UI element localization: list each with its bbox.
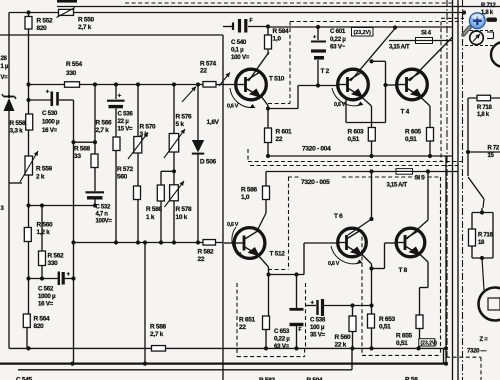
svg-text:R 718: R 718 — [477, 105, 492, 111]
svg-text:330: 330 — [48, 260, 59, 267]
svg-text:R 584: R 584 — [273, 28, 290, 35]
svg-text:560: 560 — [117, 174, 128, 181]
svg-text:820: 820 — [37, 25, 48, 32]
svg-text:15 V=: 15 V= — [118, 126, 134, 133]
svg-text:R 560: R 560 — [37, 222, 54, 229]
svg-text:22 k: 22 k — [335, 342, 347, 349]
svg-text:C 530: C 530 — [42, 110, 58, 117]
svg-text:C 545: C 545 — [16, 377, 33, 380]
svg-text:1,0: 1,0 — [241, 194, 250, 201]
svg-text:33: 33 — [74, 153, 81, 160]
svg-text:R 564: R 564 — [34, 316, 51, 323]
svg-text:R 552: R 552 — [37, 18, 54, 25]
svg-text:3,15 A/T: 3,15 A/T — [389, 45, 410, 51]
svg-text:R 603: R 603 — [348, 129, 365, 136]
svg-text:+: + — [46, 89, 50, 96]
svg-text:C 562: C 562 — [38, 286, 54, 293]
svg-text:22 µ: 22 µ — [118, 118, 130, 125]
svg-text:5 k: 5 k — [176, 121, 185, 128]
svg-text:R 550: R 550 — [78, 17, 95, 24]
svg-text:16 V=: 16 V= — [42, 127, 58, 134]
svg-text:(23,2V): (23,2V) — [421, 341, 438, 347]
svg-text:R 712: R 712 — [481, 3, 496, 9]
svg-text:C 540: C 540 — [231, 39, 247, 46]
svg-text:7320 - 004: 7320 - 004 — [302, 146, 331, 153]
svg-text:R 586: R 586 — [241, 187, 258, 194]
svg-text:C 532: C 532 — [96, 205, 111, 211]
svg-text:0,51: 0,51 — [396, 340, 408, 347]
svg-text:D 506: D 506 — [200, 159, 217, 166]
svg-text:R 588: R 588 — [150, 324, 167, 331]
svg-text:R 655: R 655 — [396, 333, 413, 340]
svg-text:2,7 k: 2,7 k — [150, 331, 164, 338]
svg-text:R 568: R 568 — [74, 146, 91, 153]
svg-text:1,8 k: 1,8 k — [477, 112, 490, 118]
svg-text:(23,2V): (23,2V) — [354, 30, 372, 36]
svg-text:T 510: T 510 — [269, 76, 285, 83]
svg-text:1,6V: 1,6V — [207, 119, 220, 126]
svg-text:R 651: R 651 — [239, 317, 256, 324]
svg-text:V=: V= — [1, 75, 9, 81]
svg-text:R 572: R 572 — [117, 166, 134, 173]
svg-text:3,15 A/T: 3,15 A/T — [387, 182, 408, 188]
svg-text:F: F — [250, 18, 253, 24]
svg-text:0,6 V: 0,6 V — [334, 102, 346, 108]
svg-text:+: + — [313, 35, 316, 41]
svg-text:0,22 µ: 0,22 µ — [330, 36, 346, 43]
svg-text:T 2: T 2 — [321, 68, 330, 75]
svg-text:0,6 V: 0,6 V — [328, 261, 340, 267]
svg-text:1000 µ: 1000 µ — [42, 119, 60, 126]
svg-text:0,51: 0,51 — [348, 136, 360, 143]
svg-text:10 k: 10 k — [176, 214, 188, 221]
svg-text:Si 4: Si 4 — [421, 30, 432, 37]
svg-text:R 601: R 601 — [276, 129, 293, 136]
svg-text:100 µ: 100 µ — [310, 324, 325, 331]
svg-text:2,7 k: 2,7 k — [78, 24, 92, 31]
svg-text:+: + — [118, 93, 122, 100]
svg-text:3 k: 3 k — [140, 131, 149, 138]
svg-text:R 580: R 580 — [146, 206, 163, 213]
svg-text:R 576: R 576 — [176, 114, 193, 121]
svg-text:Z =: Z = — [480, 337, 489, 343]
svg-text:R 605: R 605 — [405, 129, 422, 136]
svg-text:1 k: 1 k — [146, 214, 155, 221]
svg-text:0,6 V: 0,6 V — [227, 104, 239, 110]
svg-text:R 716: R 716 — [478, 233, 493, 239]
svg-text:T 6: T 6 — [334, 213, 343, 220]
svg-text:T 8: T 8 — [399, 267, 408, 274]
svg-text:0,22 µ: 0,22 µ — [274, 336, 290, 343]
svg-text:820: 820 — [34, 323, 45, 330]
svg-text:R 574: R 574 — [200, 61, 217, 68]
svg-text:C 538: C 538 — [310, 317, 326, 324]
svg-text:22: 22 — [276, 136, 283, 143]
svg-text:R 582: R 582 — [198, 249, 215, 256]
svg-text:63 V~: 63 V~ — [330, 44, 346, 51]
svg-text:35 V=: 35 V= — [310, 332, 326, 339]
svg-text:R 58: R 58 — [405, 377, 418, 380]
svg-text:4,7 n: 4,7 n — [96, 212, 109, 218]
svg-text:C 536: C 536 — [118, 111, 134, 118]
svg-text:R 72: R 72 — [488, 146, 500, 152]
svg-text:100V=: 100V= — [96, 219, 113, 225]
svg-text:1000 µ: 1000 µ — [38, 293, 56, 300]
svg-text:F: F — [299, 327, 302, 333]
svg-text:22: 22 — [200, 68, 207, 75]
svg-text:0,51: 0,51 — [405, 136, 417, 143]
svg-text:R 554: R 554 — [66, 61, 83, 68]
svg-text:330: 330 — [66, 70, 77, 77]
svg-text:R 653: R 653 — [379, 316, 396, 323]
svg-text:7320 —: 7320 — — [467, 349, 487, 355]
svg-text:2 k: 2 k — [36, 174, 45, 181]
svg-text:28: 28 — [1, 56, 8, 62]
svg-text:R 559: R 559 — [36, 166, 53, 173]
svg-text:C 653: C 653 — [274, 328, 290, 335]
svg-text:2,7 k: 2,7 k — [96, 127, 110, 134]
svg-text:R 566: R 566 — [96, 120, 113, 127]
svg-text:22: 22 — [198, 256, 205, 263]
svg-text:7320 - 005: 7320 - 005 — [301, 179, 330, 186]
svg-text:16 V=: 16 V= — [38, 301, 54, 308]
svg-text:15: 15 — [488, 153, 495, 159]
svg-text:22: 22 — [239, 324, 246, 331]
svg-text:Si 5: Si 5 — [415, 175, 426, 182]
svg-text:0,6 V: 0,6 V — [227, 222, 239, 228]
svg-text:1,0: 1,0 — [273, 36, 282, 43]
svg-text:C 601: C 601 — [330, 28, 346, 35]
svg-text:R 560: R 560 — [335, 334, 352, 341]
svg-text:R 562: R 562 — [48, 253, 65, 260]
svg-text:0,51: 0,51 — [379, 324, 391, 331]
svg-text:1 µ: 1 µ — [1, 64, 9, 70]
svg-text:1,2 k: 1,2 k — [37, 229, 51, 236]
svg-text:100 V=: 100 V= — [231, 54, 250, 61]
svg-text:18: 18 — [478, 240, 485, 246]
svg-text:R 570: R 570 — [140, 124, 157, 131]
svg-text:R 558: R 558 — [10, 120, 27, 127]
svg-text:T 512: T 512 — [270, 251, 286, 258]
svg-text:T 4: T 4 — [401, 109, 410, 116]
svg-text:63 V=: 63 V= — [274, 343, 290, 350]
svg-text:R 578: R 578 — [176, 206, 193, 213]
svg-text:3,3 k: 3,3 k — [10, 128, 24, 135]
svg-text:0,1 µ: 0,1 µ — [231, 47, 244, 54]
